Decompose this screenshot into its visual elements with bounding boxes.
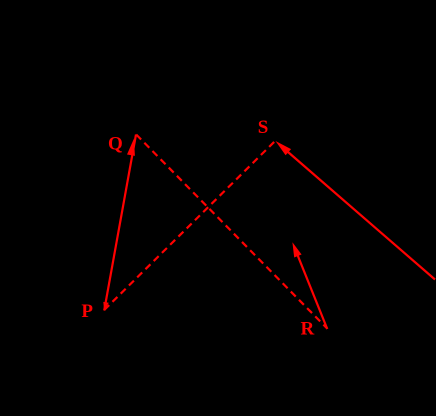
svg-text:R: R <box>301 319 315 340</box>
wire: dashed line P to S <box>104 140 276 310</box>
svg-text:Q: Q <box>108 133 123 154</box>
svg-text:S: S <box>258 117 269 138</box>
node R-vector arrowhead <box>292 242 301 257</box>
node S arrowhead (tip of long vector) <box>276 141 292 155</box>
node Q arrowhead (tip of vector PQ) <box>127 139 135 156</box>
wire: solid vector shaft P to Q <box>104 135 136 311</box>
node P small arrowhead <box>103 302 109 311</box>
wire: solid vector shaft from R upward <box>296 250 328 329</box>
wire: dashed line Q to R <box>136 135 327 329</box>
wire: long solid vector shaft from right edge to S <box>288 152 435 280</box>
svg-text:P: P <box>81 301 93 322</box>
